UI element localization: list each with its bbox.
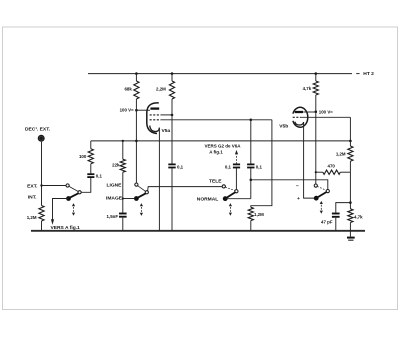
wire V5b anode [303,111,316,113]
switch S1 arm [69,193,79,198]
svg-text:1,2M: 1,2M [336,151,346,156]
switch S3 motion arrow [229,203,232,216]
wire anode to S4 [315,112,317,184]
wire S2 to TELE contact [148,187,222,191]
node V5a anode [135,109,138,112]
value 4,7k anode [303,86,312,91]
wire IMAGE to pivot [123,198,134,200]
tube V5b anode plate [295,111,303,113]
node 22k junction [122,140,124,142]
svg-text:+: + [297,197,300,202]
label NORMAL [197,196,218,202]
wire EXT to switch [42,185,66,187]
switch S2 motion arrow [140,203,143,216]
label DEC1. EXT. [25,127,51,133]
label VERS A fig.1 [51,225,81,231]
node grid cap junction [250,119,253,122]
wire feedback to S4 [251,180,328,190]
value 1,2M [27,215,37,220]
tube V5b grid [293,116,301,118]
value 22k [112,163,120,168]
svg-text:NORMAL: NORMAL [197,196,218,202]
wire 1,2M to bus [250,221,252,231]
switch S3 contact TELE [222,185,225,188]
label 100V V5b [319,109,333,114]
svg-text:2,2M: 2,2M [156,87,166,92]
wire terminal down [41,142,43,206]
value 1,2M grid leak [254,212,264,217]
resistor 1,2M feedback [348,146,353,172]
svg-text:VERS A fig.1: VERS A fig.1 [51,225,81,231]
tube V5a screen grid [150,114,161,116]
node 2,2M top [171,72,174,75]
node 470 left [315,171,317,173]
svg-text:1,2M: 1,2M [27,215,37,220]
wire 1,5nF to bus [122,218,124,231]
wire line to 22k [122,141,124,159]
value 1,5nF [107,214,119,219]
switch S3 pivot [223,196,228,201]
wire 470 to 4,7k [349,172,351,209]
svg-text:0,1: 0,1 [225,164,232,169]
wire S3 pivot to grid cap [225,198,251,200]
resistor 1,2M grid leak [248,207,253,220]
resistor 1,2M input [39,206,44,222]
tube V5a cathode [150,126,160,132]
label EXT. [27,183,38,189]
wire grid leak path [251,120,272,207]
label 100V V5a [120,107,134,112]
value 0,1 grid [256,164,263,169]
svg-text:HT 2: HT 2 [363,71,374,77]
node screen bypass [171,114,174,117]
svg-text:V5a: V5a [162,128,171,134]
wire S3 contact to cap V6A [235,168,237,189]
value 1,2M feedback [336,151,346,156]
svg-text:LIGNE: LIGNE [107,183,123,189]
ground bus [31,230,365,232]
value 0,1 screen [177,164,184,169]
label VERS G2 de V6A [205,144,242,149]
wire screen to bypass [161,114,172,116]
switch S4 arm [316,192,326,198]
label V5a [162,128,171,134]
svg-text:47 pF: 47 pF [321,220,333,225]
wire grid line to cap [250,120,252,164]
svg-text:0,1: 0,1 [177,164,184,169]
wire 47pF to bus [335,218,337,231]
node 68k top [135,72,138,75]
wire bus to ground symbol [349,231,351,237]
node EXT junction [40,184,42,186]
capacitor 0,1 screen bypass [168,164,175,167]
tube V5a control grid [150,119,161,121]
switch S4 contact minus [314,184,317,187]
switch S4 motion arrow [320,201,323,214]
label V5b [279,124,288,130]
svg-text:1,2M: 1,2M [254,212,264,217]
wire S1 pivot to arrow VERS A [53,199,69,221]
resistor 68k [134,74,139,111]
wire S1 to coupling cap [81,178,91,192]
svg-text:0,1: 0,1 [96,174,103,179]
svg-text:68k: 68k [124,87,132,92]
node V5b anode [315,110,318,113]
switch S1 motion arrow [72,203,75,216]
label IMAGE [106,195,123,201]
label plus [297,197,300,202]
node feedback branch [250,179,253,182]
wire V5a cathode to bus [158,128,160,231]
wire 47pF branch [336,203,351,213]
wire anode coupling line [91,140,351,142]
svg-text:4,7k: 4,7k [354,214,363,219]
svg-text:4,7k: 4,7k [303,86,312,91]
tube V5a envelope [147,103,159,134]
svg-text:IMAGE: IMAGE [106,195,123,201]
switch S4 throw dashes [317,186,326,190]
wire V5b grid line [301,116,351,118]
wire V5b grid corner [349,117,351,146]
switch S3 throw dashes [225,187,235,190]
wire control grid line [161,119,272,121]
svg-text:DEC¹. EXT.: DEC¹. EXT. [25,127,51,133]
value 4,7k cathode [354,214,363,219]
value 2,2M [156,87,166,92]
label HT 2 [363,71,374,77]
switch S2 contact right [145,191,148,194]
resistor 22k [120,159,125,172]
svg-text:VERS G2 de V6A: VERS G2 de V6A [205,144,242,149]
label minus [296,184,299,189]
tube V5b envelope [293,107,308,127]
wire anode to LIGNE [135,110,137,183]
wire V5b cathode to pivot [304,123,314,199]
switch S4 pivot [314,196,319,201]
svg-text:A fig.1: A fig.1 [209,150,223,155]
switch S2 throw line [138,186,146,192]
wire 22k to IMAGE node [122,172,124,212]
value 100 [79,154,87,159]
tube V5b cathode [295,122,304,125]
label A fig.1 [209,150,223,155]
switch S2 contact LIGNE [135,183,138,186]
wire 2,2M to screen cap [171,99,173,164]
capacitor 47pF [332,214,340,217]
switch S4 contact feedback [326,190,329,193]
node 4,7k top [315,72,318,75]
switch S3 contact cap side [235,190,238,193]
power rail HT2 [88,73,360,75]
wire grid cap down [250,168,252,199]
svg-text:22k: 22k [112,163,120,168]
wire screen cap to bus [171,168,173,231]
capacitor 1,5nF [119,214,127,217]
svg-text:INT.: INT. [28,195,37,201]
value 0,1 input [96,174,103,179]
svg-text:1,5nF: 1,5nF [107,214,119,219]
svg-text:100 V≈: 100 V≈ [120,107,134,112]
ground [347,238,355,241]
switch S1 contact EXT [66,184,69,187]
wire 1,2M to bus [41,221,43,231]
wire anode V5a [136,109,150,111]
node anode-line junction [135,140,138,143]
svg-text:100 V≈: 100 V≈ [319,109,333,114]
capacitor 0,1 grid [247,164,254,167]
svg-text:100: 100 [79,154,87,159]
value 68k [124,87,132,92]
resistor 2,2M [169,74,174,99]
value 0,1 V6A [225,164,232,169]
value 470 [328,164,336,169]
arrow VERS A [51,219,54,225]
wire cap to resistor 100 [90,164,92,174]
label TELE [209,178,222,184]
switch S3 arm [225,192,235,198]
tube V5a anode plate [150,107,159,109]
node grid leak V5b [349,140,352,143]
switch S1 pivot [66,196,71,201]
label INT. [28,195,37,201]
node 47pF junction [349,201,352,204]
terminal DEC1 EXT [38,135,45,142]
svg-text:EXT.: EXT. [27,183,38,189]
resistor 100 [88,149,93,164]
value 47pF [321,220,333,225]
capacitor 0,1 to V6A [233,164,240,167]
svg-text:470: 470 [328,164,336,169]
svg-text:−: − [296,184,299,189]
svg-text:V5b: V5b [279,124,288,130]
svg-text:0,1: 0,1 [256,164,263,169]
node IMAGE [122,197,124,199]
switch S2 pivot [134,196,139,201]
capacitor 0,1 input [87,174,94,177]
arrow VERS G2 [235,150,238,164]
svg-text:TELE: TELE [209,178,222,184]
resistor 4,7k anode [313,74,318,112]
wire 100 to coupling line [90,141,92,149]
resistor 4,7k cathode [348,209,353,231]
switch S2 arm [137,193,146,198]
resistor 470 [316,170,351,174]
switch S1 throw line [69,186,78,191]
switch S1 contact INT side [78,191,81,194]
label LIGNE [107,183,123,189]
